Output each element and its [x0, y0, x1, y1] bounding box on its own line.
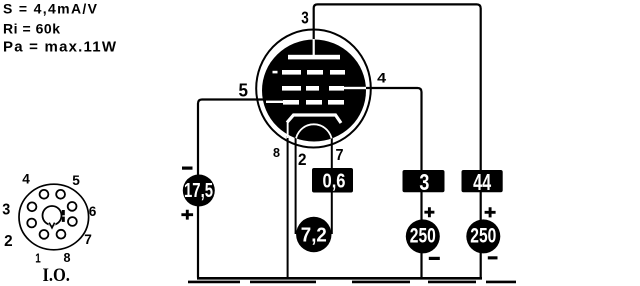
- anode lead to pin 3: [313, 39, 315, 56]
- svg-text:7,2: 7,2: [301, 224, 327, 247]
- grid g3 row (top): [273, 70, 346, 75]
- svg-text:2: 2: [298, 150, 307, 169]
- svg-text:17,5: 17,5: [184, 179, 213, 202]
- svg-text:Ri = 60k: Ri = 60k: [3, 21, 60, 37]
- svg-text:5: 5: [239, 79, 249, 100]
- svg-text:8: 8: [273, 145, 280, 160]
- tube V1 inner disc: [262, 40, 366, 142]
- grid g1 row (bottom, control): [283, 100, 344, 105]
- socket hole pin 5: [56, 190, 65, 199]
- meter M5 screen voltage 250 V: [406, 219, 440, 253]
- polarity minus (screen voltage meter): [429, 257, 440, 260]
- wire pin4 (screen grid) to right, down to bottom rail: [366, 88, 422, 277]
- polarity plus (anode voltage meter): [485, 207, 496, 217]
- meter M7 anode voltage 250 V: [466, 219, 500, 253]
- svg-text:3: 3: [419, 169, 429, 195]
- meter M3 heater voltage 7,2 V: [296, 217, 331, 252]
- control grid lead to pin 5: [266, 101, 283, 103]
- polarity plus (grid bias meter): [181, 210, 193, 220]
- svg-text:5: 5: [72, 172, 80, 188]
- anode plate: [288, 55, 340, 60]
- svg-text:4: 4: [377, 71, 387, 86]
- socket hole pin 2: [27, 219, 36, 228]
- socket hole pin 6: [68, 202, 77, 211]
- socket spigot side bars: [62, 210, 65, 215]
- wire pin8 (cathode) down to bottom rail: [287, 136, 289, 278]
- svg-text:250: 250: [410, 225, 436, 248]
- meter M2 heater current 0,6 A: [312, 168, 353, 193]
- svg-text:2: 2: [4, 233, 13, 250]
- svg-text:Pa = max.11W: Pa = max.11W: [3, 38, 117, 55]
- socket hole pin 7: [68, 217, 77, 226]
- socket pin holes: [27, 190, 77, 239]
- wire pin5 (control grid) to left, down to bias meter and bottom rail: [198, 100, 263, 278]
- socket spigot key notch: [49, 223, 54, 228]
- svg-text:1: 1: [35, 251, 41, 266]
- svg-text:7: 7: [84, 231, 92, 247]
- meter M6 anode current 44 mA: [462, 170, 503, 192]
- svg-text:I.O.: I.O.: [42, 266, 70, 286]
- cathode lead to pin 8: [287, 121, 289, 138]
- svg-text:0,6: 0,6: [323, 170, 346, 193]
- tube V1 envelope: [256, 30, 371, 148]
- polarity plus (screen voltage meter): [424, 207, 434, 217]
- svg-text:7: 7: [336, 147, 344, 164]
- grid g2 row (middle, screen): [282, 86, 344, 91]
- wire pin3 (anode) to top rail and down right side: [314, 4, 481, 277]
- wire pin7 (heater) down through current meter to heater meter: [331, 138, 333, 234]
- svg-text:4: 4: [22, 171, 30, 187]
- meter M1 grid bias voltage 17,5 V: [183, 175, 215, 207]
- svg-text:44: 44: [473, 169, 491, 195]
- heater filament loop: [296, 124, 332, 146]
- socket hole pin 3: [28, 202, 37, 211]
- socket center spigot: [43, 206, 62, 225]
- polarity minus (anode voltage meter): [488, 256, 498, 259]
- socket hole pin 4: [40, 190, 49, 199]
- svg-text:6: 6: [89, 203, 97, 219]
- svg-text:250: 250: [470, 225, 496, 248]
- bottom rail scan shadow dashes: [188, 281, 516, 284]
- socket hole pin 8: [57, 230, 66, 239]
- socket outline (bottom view): [19, 184, 89, 250]
- meter M4 screen current 3 mA: [403, 170, 445, 192]
- svg-text:8: 8: [64, 250, 71, 265]
- socket hole pin 1: [40, 230, 49, 239]
- wire pin2 (heater) down to heater meter: [295, 138, 297, 234]
- cathode: [287, 115, 341, 123]
- svg-text:S = 4,4mA/V: S = 4,4mA/V: [3, 1, 98, 17]
- svg-text:3: 3: [301, 8, 309, 28]
- svg-text:3: 3: [2, 202, 10, 219]
- bottom rail (common return): [197, 277, 482, 280]
- polarity minus (grid bias meter): [182, 167, 193, 170]
- screen grid lead to pin 4: [344, 87, 366, 89]
